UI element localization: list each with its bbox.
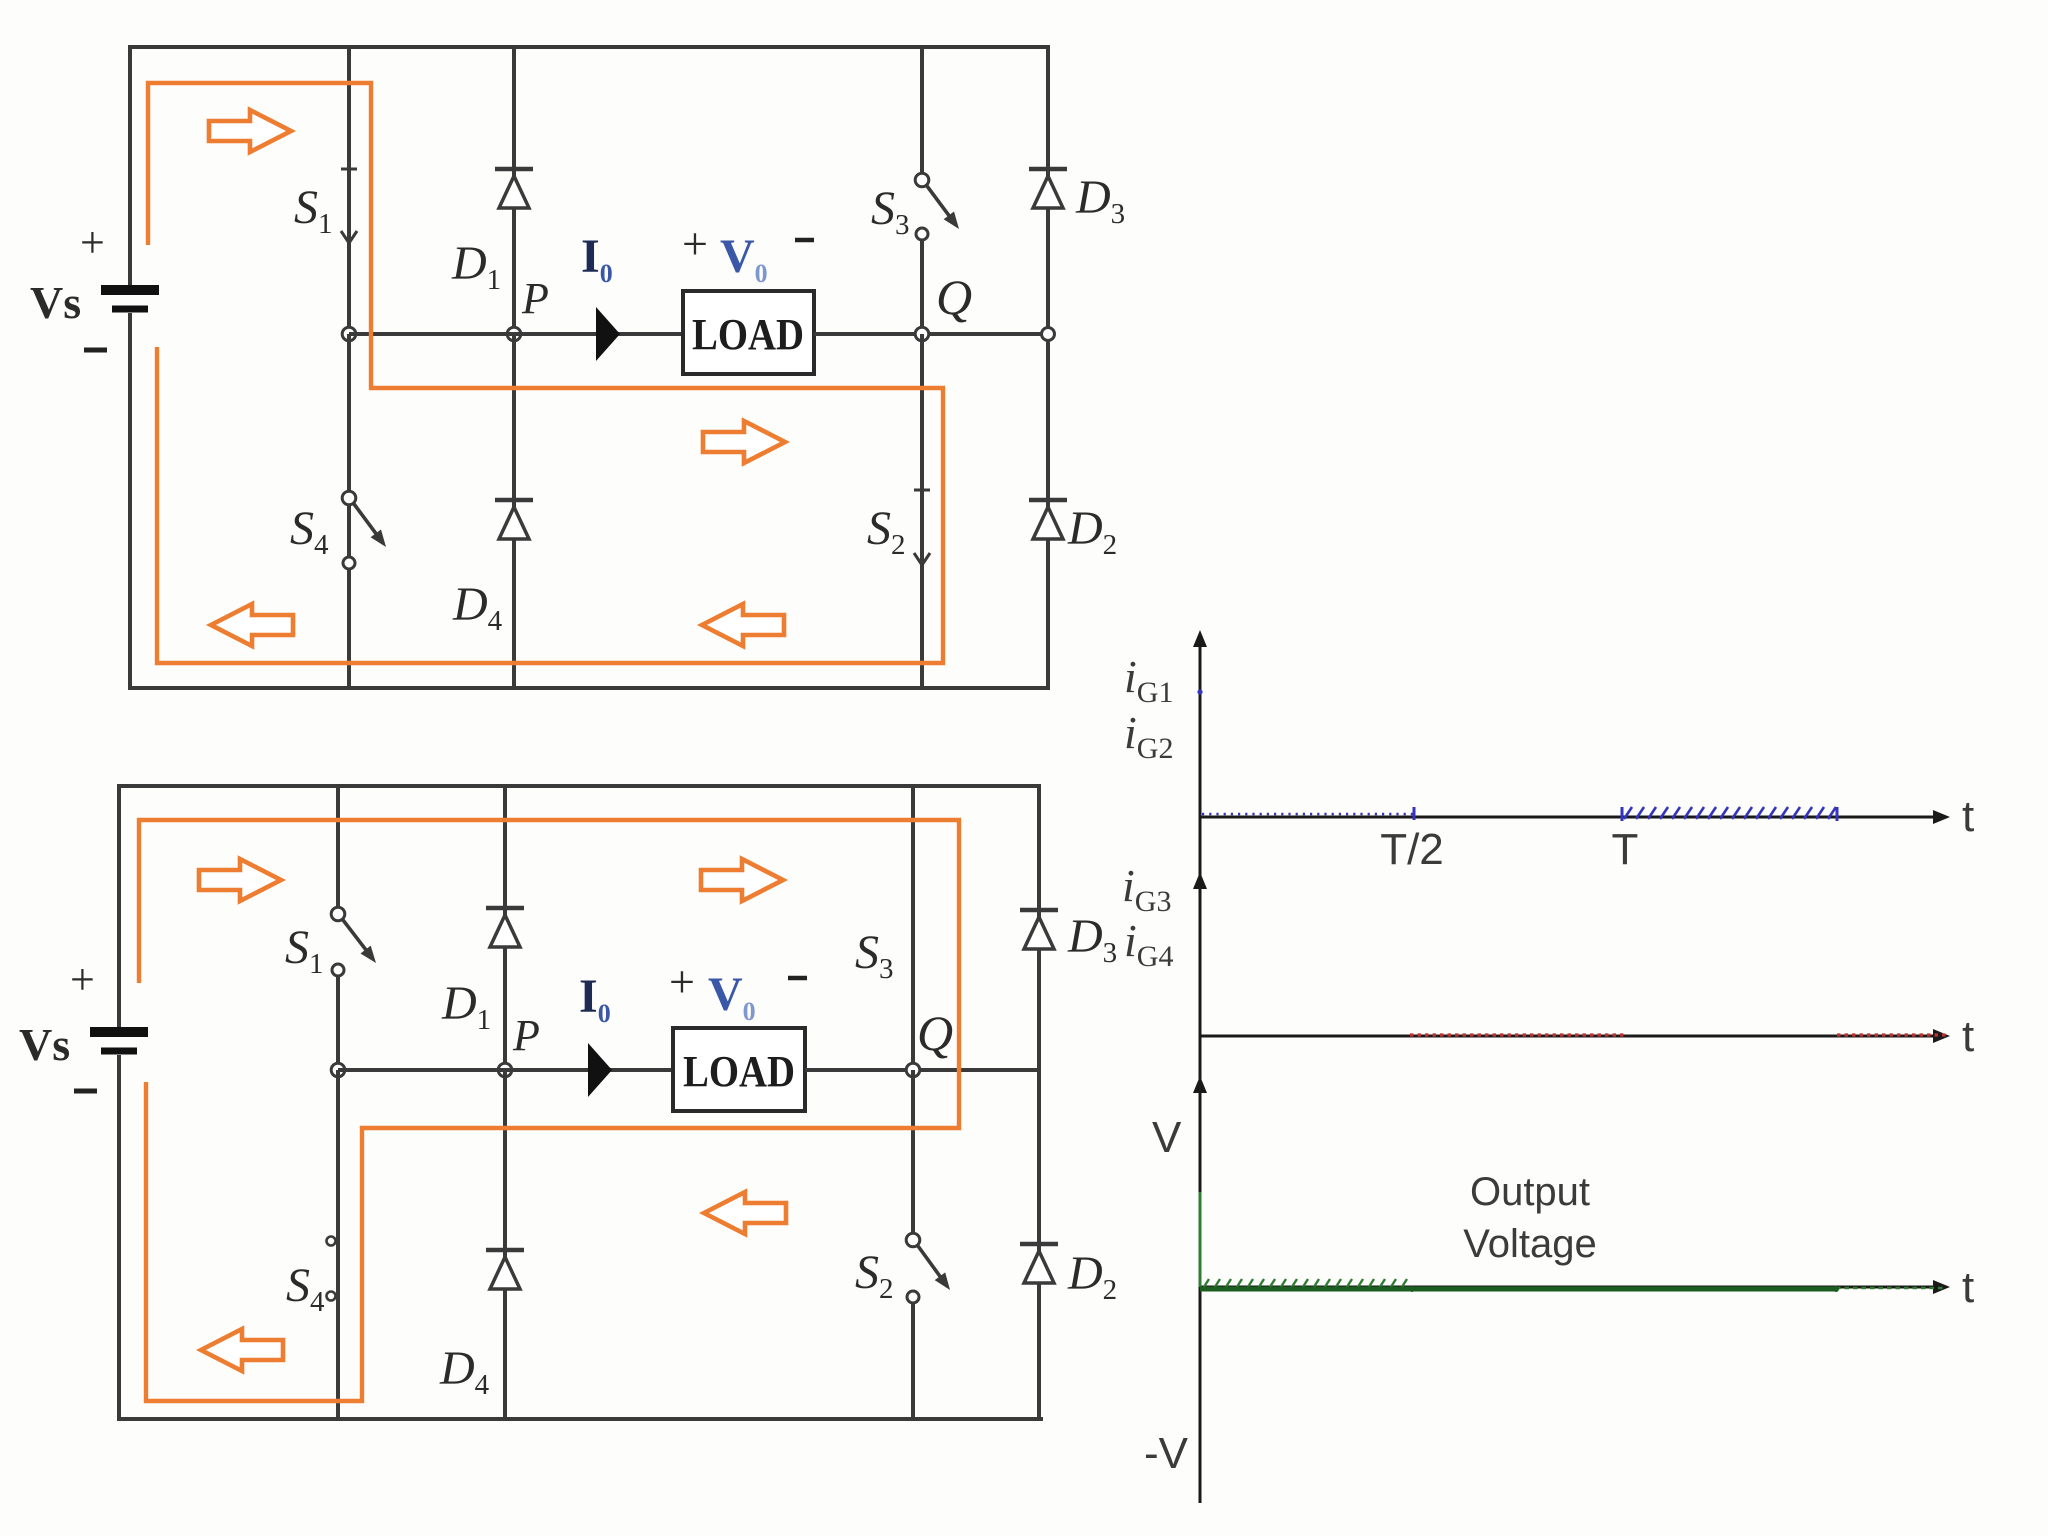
current direction arrow right (upper top-left) [209, 110, 291, 152]
svg-text:D4: D4 [452, 578, 503, 637]
label + terminal (upper battery) [80, 218, 105, 267]
svg-text:D1: D1 [441, 977, 491, 1036]
svg-text:+: + [669, 956, 695, 1007]
label + terminal (lower battery) [70, 955, 95, 1004]
label V0 (lower) [708, 968, 756, 1026]
label T [1612, 825, 1639, 874]
svg-text:+: + [682, 218, 708, 269]
svg-text:Q: Q [936, 269, 972, 325]
current direction arrow right (lower top-right) [701, 859, 783, 901]
diode D2 (upper) [1029, 500, 1067, 539]
tick T (blue) [1622, 807, 1837, 821]
label iG4 [1124, 915, 1173, 973]
wire: S2 to bottom rail (lower) [911, 1303, 915, 1419]
axis arrowhead iG1/iG2 [1193, 630, 1207, 647]
iG3/iG4 time axis [1201, 1029, 1950, 1043]
label Voltage [1463, 1222, 1596, 1266]
svg-text:S1: S1 [285, 921, 324, 980]
label t (iG axis 2) [1962, 1012, 1974, 1061]
label S4 (lower) [286, 1259, 325, 1318]
wire: load rail P-side (lower) [338, 1068, 673, 1072]
svg-text:S2: S2 [867, 502, 906, 561]
svg-text:t: t [1962, 1012, 1974, 1061]
output voltage hatched region 0..T/2 (green) [1202, 1279, 1407, 1290]
label D3 (lower) [1067, 910, 1117, 969]
wire: S4 leg (lower, closed) [336, 1070, 340, 1419]
wire: load rail Q-side (lower) [805, 1068, 1039, 1072]
wire: bottom rail of upper bridge [128, 686, 1050, 690]
wire: S1 leg (upper) [347, 47, 351, 334]
iG1 gate pulse trace T..(blue hatched) [1624, 807, 1836, 819]
diode D1 (lower) [486, 908, 524, 947]
label Vs (lower) [19, 1019, 70, 1070]
switch S2 (lower, open) [906, 1233, 950, 1303]
svg-text:I0: I0 [579, 970, 611, 1028]
wire: top rail of upper bridge [128, 45, 1050, 49]
wire: S4 leg (upper) [347, 334, 351, 688]
label + of V0 (upper) [682, 218, 708, 269]
svg-text:V: V [1152, 1113, 1182, 1162]
node P (lower) [498, 1063, 512, 1077]
svg-text:P: P [512, 1011, 540, 1060]
wire: bottom rail of lower bridge [117, 1417, 1043, 1421]
label - of V0 (lower) [788, 976, 807, 981]
label V0 (upper) [720, 230, 768, 288]
wire: load rail Q-side (upper) [814, 332, 1048, 336]
iG3 gate pulse trace after 3T/2 (red dashed) [1837, 1033, 1946, 1036]
svg-text:Output: Output [1470, 1170, 1590, 1214]
svg-text:D1: D1 [451, 237, 501, 296]
svg-text:S3: S3 [871, 182, 910, 241]
label iG1 [1124, 651, 1173, 709]
label T/2 [1380, 825, 1444, 874]
current direction arrow left (upper bottom-left) [211, 604, 293, 646]
tick T/2 (blue) [1413, 807, 1416, 820]
label Vs (upper) [30, 277, 81, 328]
node Q (upper) [915, 327, 929, 341]
svg-text:LOAD: LOAD [683, 1047, 795, 1096]
iG1 gate pulse trace 0..T/2 (blue dotted) [1202, 813, 1414, 816]
label S2 (upper) [867, 502, 906, 561]
svg-text:D3: D3 [1075, 171, 1125, 230]
node P (upper) [507, 327, 521, 341]
label iG3 [1122, 860, 1171, 918]
svg-text:t: t [1962, 792, 1974, 841]
wire: current path highlight (upper, S1-S2 conduction loop) [148, 83, 943, 663]
wire: S3 leg (lower, closed) [911, 786, 915, 1070]
svg-text:t: t [1962, 1263, 1974, 1312]
current direction arrow left (lower middle) [704, 1192, 786, 1234]
label D1 (lower) [441, 977, 491, 1036]
label I0 (upper) [581, 230, 613, 288]
iG3 gate pulse trace T/2..T (red dashed) [1410, 1033, 1626, 1036]
label V [1152, 1113, 1182, 1162]
label -V [1144, 1429, 1189, 1478]
svg-text:D3: D3 [1067, 910, 1117, 969]
wire: left rail lower segment (battery bottom lead) [128, 313, 132, 690]
output voltage trace (green solid) [1200, 1287, 1836, 1292]
output voltage time axis [1200, 1280, 1950, 1294]
svg-text:iG3: iG3 [1122, 860, 1171, 918]
wire: left rail lower segment (lower battery bottom lead) [117, 1055, 121, 1421]
svg-text:+: + [80, 218, 105, 267]
svg-text:V0: V0 [708, 968, 756, 1026]
axis arrowhead iG3/iG4 [1193, 872, 1207, 889]
iG1 trace start dot [1197, 689, 1202, 694]
node: junction of S1/S4 with load rail (upper) [342, 327, 356, 341]
label D2 (lower) [1067, 1247, 1117, 1306]
label - terminal (upper battery) [84, 348, 107, 353]
battery Vs (upper circuit) plates [101, 290, 159, 309]
load box LOAD (lower) [673, 1028, 805, 1111]
green marker at 3T/2 [1833, 1286, 1839, 1292]
svg-text:D2: D2 [1067, 502, 1117, 561]
green marker at T/2 [1409, 1286, 1415, 1292]
svg-text:S3: S3 [855, 926, 894, 985]
iG1/iG2 time axis [1200, 810, 1950, 824]
load box LOAD (upper) [683, 291, 814, 374]
label Output [1470, 1170, 1590, 1214]
svg-text:T: T [1612, 825, 1639, 874]
wire: right rail / D3-D2 leg of upper bridge [1046, 45, 1050, 690]
svg-text:Voltage: Voltage [1463, 1222, 1596, 1266]
current direction arrow left (lower bottom-left) [201, 1329, 283, 1371]
label S3 (upper) [871, 182, 910, 241]
label D2 (upper) [1067, 502, 1117, 561]
svg-text:D4: D4 [439, 1342, 490, 1401]
svg-text:-V: -V [1144, 1429, 1189, 1478]
current direction arrow left (upper bottom-middle) [702, 604, 784, 646]
svg-text:T/2: T/2 [1380, 825, 1444, 874]
svg-text:S1: S1 [294, 181, 333, 240]
wire: D4 leg (lower) [503, 1070, 507, 1419]
svg-text:iG2: iG2 [1124, 707, 1173, 765]
current arrow I0 (lower) [588, 1043, 612, 1097]
diode D2 (lower) [1020, 1244, 1058, 1283]
node: junction of S1/S4 with load rail (lower) [331, 1063, 345, 1077]
diode D3 (lower) [1020, 910, 1058, 949]
label S4 (upper) [290, 502, 329, 561]
battery Vs (lower circuit) plates [90, 1032, 148, 1051]
wire: S3 to node Q (upper) [920, 240, 924, 334]
output voltage axis green left edge [1199, 1192, 1202, 1287]
axis arrowhead output voltage [1193, 1076, 1207, 1093]
svg-text:S4: S4 [286, 1259, 325, 1318]
label S1 (upper) [294, 181, 333, 240]
svg-text:Vs: Vs [19, 1019, 70, 1070]
label D4 (upper) [452, 578, 503, 637]
svg-text:+: + [70, 955, 95, 1004]
label D1 (upper) [451, 237, 501, 296]
wire: D4 leg (upper) [512, 334, 516, 688]
wire: S2 leg (upper) [920, 334, 924, 688]
label P (lower) [512, 1011, 540, 1060]
wire: S1 leg upper stub (lower) [336, 786, 340, 908]
wire: current path highlight (lower, S3-S4 conduction loop) [139, 820, 959, 1401]
switch S1 (lower, open) [331, 907, 376, 976]
label + of V0 (lower) [669, 956, 695, 1007]
svg-text:I0: I0 [581, 230, 613, 288]
svg-text:LOAD: LOAD [692, 310, 804, 359]
svg-text:iG4: iG4 [1124, 915, 1173, 973]
svg-text:D2: D2 [1067, 1247, 1117, 1306]
label S1 (lower) [285, 921, 324, 980]
label P (upper) [521, 274, 549, 323]
svg-text:P: P [521, 274, 549, 323]
current direction arrow right (upper middle) [703, 421, 785, 463]
current direction arrow right (lower top-left) [199, 859, 281, 901]
label D3 (upper) [1075, 171, 1125, 230]
wire: S1 to load rail (lower) [336, 976, 340, 1070]
label S3 (lower) [855, 926, 894, 985]
svg-text:iG1: iG1 [1124, 651, 1173, 709]
svg-text:S2: S2 [855, 1246, 894, 1305]
diode D4 (lower) [486, 1250, 524, 1289]
wire: left rail upper segment (battery top lead) [128, 45, 132, 287]
svg-text:Vs: Vs [30, 277, 81, 328]
label I0 (lower) [579, 970, 611, 1028]
label t (iG axis 1) [1962, 792, 1974, 841]
node Q (lower) [906, 1063, 920, 1077]
wire: D1 leg (lower) [503, 786, 507, 1070]
current arrow I0 (upper) [596, 307, 620, 361]
label - of V0 (upper) [795, 238, 814, 243]
wire: top rail of lower bridge [117, 784, 1041, 788]
output voltage trace tail (green dashed) [1836, 1287, 1946, 1290]
switch S4 (upper, open) [342, 491, 386, 569]
switch S4 (lower) terminal dots [327, 1237, 336, 1301]
svg-text:Q: Q [917, 1005, 953, 1061]
diode D4 (upper) [495, 500, 533, 539]
svg-text:V0: V0 [720, 230, 768, 288]
svg-text:S4: S4 [290, 502, 329, 561]
wire: left rail upper segment (lower battery top lead) [117, 784, 121, 1028]
wire: S3 leg upper stub [920, 47, 924, 174]
wire: load rail P-side (upper) [349, 332, 683, 336]
label Q (upper) [936, 269, 972, 325]
label Q (lower) [917, 1005, 953, 1061]
label D4 (lower) [439, 1342, 490, 1401]
label iG2 [1124, 707, 1173, 765]
label - terminal (lower battery) [74, 1089, 97, 1094]
label S2 (lower) [855, 1246, 894, 1305]
label t (output axis) [1962, 1263, 1974, 1312]
switch S3 (upper, open) [915, 173, 959, 240]
switch S1 (upper, closed) direction marks [341, 169, 357, 243]
switch S2 (upper, closed) direction marks [914, 490, 930, 565]
wire: D1 leg (upper) [512, 47, 516, 334]
wire: S2 leg upper stub (lower) [911, 1070, 915, 1234]
waveform vertical axis (shared) [1199, 645, 1202, 1503]
diode D1 (upper) [495, 169, 533, 208]
diode D3 (upper) [1029, 169, 1067, 208]
wire: right rail / D3-D2 leg of lower bridge [1037, 784, 1041, 1421]
node: load rail meets right rail (upper) [1042, 328, 1055, 341]
